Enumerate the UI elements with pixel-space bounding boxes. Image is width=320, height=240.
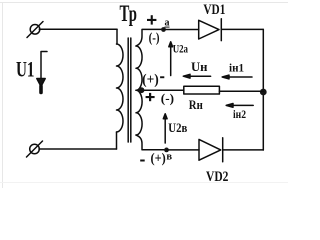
svg-text:iн1: iн1 bbox=[229, 61, 244, 75]
resistor Rн bbox=[184, 86, 220, 94]
svg-text:в: в bbox=[166, 152, 172, 163]
label - bottom bbox=[140, 160, 145, 162]
svg-text:iн2: iн2 bbox=[233, 109, 246, 121]
wire node a to VD1 anode bbox=[164, 29, 199, 31]
wire VD2 cathode to right rail bbox=[223, 149, 264, 151]
svg-text:a: a bbox=[165, 18, 170, 29]
wire node в to VD2 anode bbox=[167, 149, 200, 151]
iн1 current arrow bbox=[222, 75, 252, 79]
svg-text:U2в: U2в bbox=[168, 120, 187, 135]
wire primary bottom bbox=[39, 148, 117, 150]
svg-text:U2a: U2a bbox=[173, 44, 188, 56]
wire secondary bottom lead bbox=[136, 135, 167, 150]
svg-text:(+): (+) bbox=[151, 152, 167, 167]
U1 voltage arrow bbox=[37, 52, 47, 93]
wire right rail bbox=[262, 29, 264, 150]
wire primary bottom lead bbox=[116, 132, 118, 149]
U2в voltage arrow bbox=[163, 114, 167, 143]
transformer secondary winding bbox=[136, 46, 142, 135]
transformer core bbox=[128, 38, 131, 142]
svg-text:VD1: VD1 bbox=[203, 2, 225, 18]
svg-text:VD2: VD2 bbox=[206, 169, 228, 185]
wire Rн to output node bbox=[219, 90, 263, 92]
svg-text:(-): (-) bbox=[149, 31, 160, 46]
label + center tap lower bbox=[146, 93, 155, 101]
wire secondary top lead bbox=[136, 29, 164, 46]
input terminal bottom-left bbox=[27, 141, 43, 157]
wire primary top lead bbox=[116, 29, 118, 44]
svg-text:Rн: Rн bbox=[189, 98, 203, 112]
transformer Tр primary winding bbox=[117, 44, 124, 132]
wire center tap to Rн bbox=[136, 89, 184, 91]
diode VD1 bbox=[199, 19, 222, 41]
node output junction bbox=[260, 89, 267, 96]
label + (node a) bbox=[147, 15, 156, 24]
label - superscript center tap upper bbox=[160, 76, 164, 78]
U2a voltage arrow bbox=[169, 42, 173, 76]
node в junction bbox=[164, 148, 169, 153]
wire primary top bbox=[39, 28, 117, 30]
Uн voltage arrow bbox=[183, 74, 210, 78]
node a junction bbox=[161, 27, 166, 32]
scan border line bbox=[0, 3, 288, 189]
svg-text:(-): (-) bbox=[161, 91, 174, 106]
svg-text:U1: U1 bbox=[16, 57, 35, 82]
wire VD1 cathode to right rail bbox=[221, 28, 263, 30]
svg-text:(+): (+) bbox=[142, 72, 159, 88]
svg-text:Uн: Uн bbox=[191, 59, 208, 74]
svg-text:Тр: Тр bbox=[120, 1, 138, 26]
iн2 current arrow bbox=[226, 104, 253, 108]
input terminal top-left bbox=[27, 22, 43, 38]
node center tap bbox=[139, 87, 145, 93]
diode VD2 bbox=[199, 138, 223, 162]
